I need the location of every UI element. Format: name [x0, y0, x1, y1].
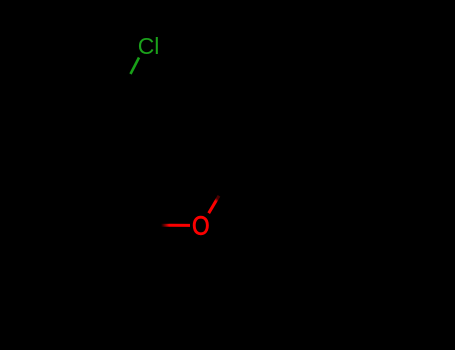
bond C-O horizontal red stub — [169, 224, 190, 227]
bond C-Cl green stub — [131, 58, 140, 75]
svg-text:Cl: Cl — [138, 33, 160, 59]
bond C-O horizontal red stub fade-in tail — [161, 224, 169, 227]
svg-text:O: O — [192, 213, 209, 241]
bond O-C diagonal red stub — [209, 196, 219, 213]
